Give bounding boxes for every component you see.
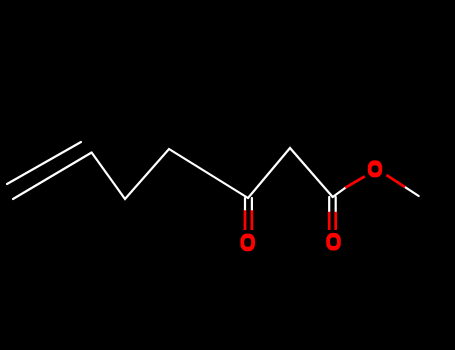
- ester C1=O double bond upper white halves: [329, 197, 336, 212]
- ketone C3=O double bond lower red halves: [245, 210, 252, 230]
- ester C1=O double bond lower red halves: [329, 212, 336, 230]
- bond C7=C6 vinyl inner (second) line: [7, 142, 81, 184]
- atom label O (ester bridging oxygen): [368, 160, 382, 177]
- bond O-CH3 methyl, carbon-side white half: [405, 187, 419, 196]
- wire chain C6-C5-C4-C3 (two short bonds then long bond into ketone carbon): [92, 149, 248, 199]
- atom label O (ketone oxygen): [240, 234, 255, 252]
- wire chain C3-C2-C1 over the apex: [248, 148, 333, 198]
- atom label O (ester carbonyl oxygen): [326, 233, 341, 251]
- ketone C3=O double bond upper white halves: [245, 198, 252, 210]
- bond C7=C6 vinyl main line: [13, 153, 92, 200]
- bond O-CH3, oxygen-side red half: [386, 175, 405, 187]
- bond C1-O ester, oxygen-side red half: [345, 176, 364, 187]
- bond C1-O ester, carbon-side white half: [333, 188, 346, 197]
